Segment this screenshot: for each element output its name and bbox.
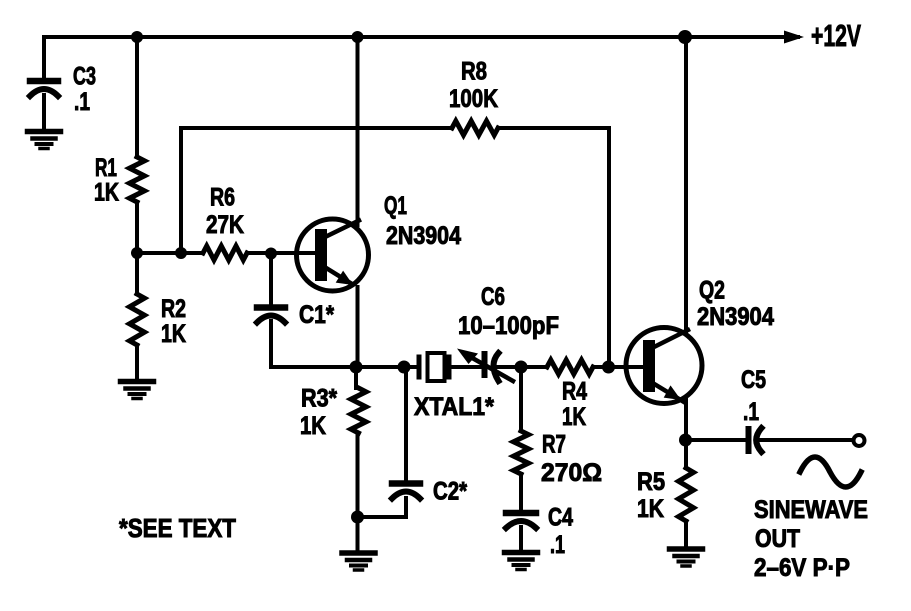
- node XTAL1 left junction: [398, 361, 411, 374]
- capacitor C4: [506, 504, 573, 560]
- svg-text:SINEWAVE: SINEWAVE: [754, 496, 868, 524]
- svg-text:.1: .1: [74, 88, 90, 116]
- ground below R2: [121, 382, 154, 399]
- node Q2 base junction: [602, 361, 615, 374]
- wire feedback top left: [181, 126, 452, 130]
- wire C6 to R4: [497, 365, 547, 369]
- output terminal: [854, 435, 865, 446]
- svg-text:10–100pF: 10–100pF: [458, 312, 559, 340]
- capacitor C1*: [257, 301, 334, 329]
- wire R3 top stub: [354, 367, 358, 388]
- wire R7 to C4: [519, 474, 523, 510]
- wire C1 top: [269, 254, 273, 304]
- wire XTAL to C6: [451, 365, 483, 369]
- node feedback tap junction: [175, 247, 187, 259]
- svg-text:2N3904: 2N3904: [697, 303, 774, 331]
- wire C3 top: [42, 37, 46, 79]
- transistor Q2 2N3904: [626, 277, 774, 404]
- wire R7 top: [519, 367, 523, 431]
- wire C3 bottom: [42, 95, 46, 131]
- wire C1 bottom: [271, 321, 356, 367]
- wire node to crystal: [356, 365, 416, 369]
- svg-text:C2*: C2*: [433, 478, 467, 506]
- svg-text:270Ω: 270Ω: [541, 459, 602, 487]
- svg-text:1K: 1K: [161, 320, 186, 348]
- wire C4 bottom: [519, 527, 523, 551]
- wire R6 to Q1 base: [247, 251, 316, 255]
- crystal XTAL1*: [414, 353, 494, 421]
- node R7 tap junction: [515, 361, 528, 374]
- wire C2 bottom to node: [358, 498, 407, 517]
- wire R2 top: [135, 253, 139, 294]
- node junction top-mid (Q1 collector rail): [352, 31, 364, 43]
- ground below R3: [342, 517, 375, 570]
- wire feedback left vertical: [179, 128, 183, 253]
- svg-text:2N3904: 2N3904: [386, 222, 461, 250]
- svg-text:C6: C6: [481, 283, 505, 311]
- svg-text:1K: 1K: [300, 412, 326, 440]
- resistor R2 1K: [130, 294, 187, 348]
- wire Q2 emitter down: [684, 399, 688, 440]
- resistor R7 270ohm: [514, 431, 603, 488]
- wire C5 to output terminal: [760, 438, 852, 442]
- wire feedback top right: [498, 126, 609, 130]
- resistor R1 1K: [94, 154, 145, 207]
- resistor R8 100K: [449, 58, 498, 136]
- capacitor C2*: [392, 478, 467, 506]
- wire R1 top: [135, 37, 139, 157]
- transistor Q1 2N3904: [297, 192, 462, 291]
- svg-text:100K: 100K: [449, 85, 498, 113]
- resistor R6 27K: [203, 184, 247, 261]
- svg-text:2–6V P·P: 2–6V P·P: [754, 554, 850, 582]
- svg-text:XTAL1*: XTAL1*: [414, 393, 494, 421]
- svg-text:OUT: OUT: [755, 525, 800, 553]
- ground below R5: [670, 549, 703, 566]
- wire R4 to Q2 base: [593, 365, 643, 369]
- wire R5 bottom: [684, 521, 688, 548]
- capacitor C6 10-100pF (variable): [457, 283, 559, 381]
- node junction top-left (C3/R1 rail): [131, 31, 143, 43]
- svg-text:.1: .1: [743, 398, 759, 426]
- wire C2 top vertical: [404, 367, 408, 481]
- wire Q2 collector up: [684, 37, 688, 332]
- resistor R3* 1K: [300, 385, 366, 441]
- capacitor C3: [30, 63, 96, 117]
- wire Q1 emitter down: [356, 287, 360, 367]
- svg-text:Q1: Q1: [384, 192, 407, 220]
- svg-text:C1*: C1*: [299, 301, 334, 329]
- svg-text:R8: R8: [461, 58, 487, 86]
- svg-text:.1: .1: [550, 531, 565, 559]
- svg-text:1K: 1K: [637, 495, 664, 523]
- node C1 tap junction: [265, 248, 277, 260]
- svg-text:R3*: R3*: [301, 385, 337, 413]
- wire feedback right vertical: [607, 128, 611, 367]
- svg-text:1K: 1K: [94, 179, 119, 207]
- svg-text:R4: R4: [562, 378, 587, 406]
- wire divider node to R6: [137, 251, 203, 255]
- ground below C4: [505, 553, 538, 570]
- svg-text:R7: R7: [542, 431, 566, 459]
- note SEE TEXT: [119, 513, 236, 543]
- wire emitter node to C5: [686, 438, 745, 442]
- svg-text:Q2: Q2: [699, 277, 725, 305]
- resistor R4 1K: [547, 360, 593, 431]
- node crystal left junction (R3/C1 node): [350, 361, 363, 374]
- svg-text:R5: R5: [637, 468, 665, 496]
- note SINEWAVE OUT: [754, 496, 868, 582]
- svg-text:R6: R6: [210, 184, 235, 212]
- svg-text:R2: R2: [161, 295, 186, 323]
- wire R3 bottom: [356, 433, 360, 517]
- svg-text:*SEE TEXT: *SEE TEXT: [119, 513, 236, 543]
- svg-text:1K: 1K: [562, 403, 586, 431]
- wire +12V top rail: [44, 35, 798, 39]
- node Q1 base divider junction: [131, 247, 143, 259]
- resistor R5 1K: [637, 468, 694, 523]
- svg-text:C3: C3: [73, 63, 96, 91]
- svg-text:C5: C5: [741, 366, 766, 394]
- +12V arrow: [784, 18, 861, 53]
- wire R2 bottom: [135, 345, 139, 380]
- wire R5 top: [684, 440, 688, 468]
- node junction top-right (Q2 collector rail): [678, 30, 692, 44]
- svg-text:27K: 27K: [206, 211, 244, 239]
- wire R1 bottom: [135, 202, 139, 253]
- sine wave symbol: [800, 457, 861, 487]
- svg-text:+12V: +12V: [811, 18, 861, 53]
- svg-text:C4: C4: [548, 504, 573, 532]
- wire Q1 collector up: [356, 37, 360, 225]
- capacitor C5 .1: [741, 366, 766, 452]
- ground below C3: [28, 132, 61, 149]
- node output junction: [679, 434, 692, 447]
- node R3/C2 ground junction: [351, 511, 364, 524]
